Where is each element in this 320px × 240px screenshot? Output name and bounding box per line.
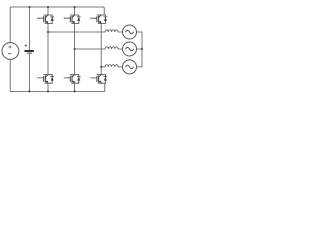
wire: left vertical from DC source to bottom rail [10, 59, 11, 91]
wire: phase C line [101, 66, 105, 68]
node: leg2 top junction [74, 6, 76, 8]
wire: bottom DC rail [11, 83, 105, 91]
capacitor C plates [25, 50, 33, 52]
transistor S2 top leg2 [64, 15, 80, 24]
transistor S6 bottom leg3 [91, 75, 107, 84]
wire: phase B line right [118, 48, 122, 50]
wire: phase A line [48, 31, 105, 33]
ac source ec [123, 60, 137, 74]
dc source V [2, 43, 19, 60]
node: leg1 bottom junction [47, 90, 49, 92]
wire: leg3 mid vertical [100, 24, 102, 75]
ac source eb [123, 42, 137, 56]
node: leg2 bottom junction [74, 90, 76, 92]
node: phase C junction [100, 66, 102, 68]
wire: phase B line [75, 48, 105, 50]
transistor S5 bottom leg2 [64, 75, 80, 84]
wire: leg1 top stub [47, 7, 49, 15]
wire: leg1 bottom stub [47, 83, 49, 91]
wire: ea right lead [137, 31, 143, 33]
wire: left vertical from top rail to DC source [10, 7, 11, 43]
wire: leg1 mid vertical [47, 24, 49, 75]
node: phase B junction [74, 48, 76, 50]
transistor S3 top leg3 [91, 15, 107, 24]
node: leg1 top junction [47, 6, 49, 8]
node: neutral junction [141, 48, 143, 50]
node: phase A junction [47, 31, 49, 33]
wire: eb right lead [137, 48, 143, 50]
wire: ec right lead [137, 66, 143, 68]
transistor S4 bottom leg1 [37, 75, 53, 84]
wire: phase A line right [118, 31, 122, 33]
wire: leg2 bottom stub [74, 83, 76, 91]
capacitor C lead top [29, 7, 31, 50]
inductor La [105, 30, 118, 32]
capacitor C lead bottom [29, 53, 31, 91]
ac source ea [123, 25, 137, 39]
inductor Lc [105, 65, 118, 67]
wire: leg2 top stub [74, 7, 76, 15]
node: cap top junction [28, 6, 30, 8]
transistor S1 top leg1 [37, 15, 53, 24]
node: cap bottom junction [28, 90, 30, 92]
capacitor plus label [25, 45, 27, 47]
wire: leg2 mid vertical [74, 24, 76, 75]
inductor Lb [105, 47, 118, 49]
wire: neutral bus [141, 32, 143, 67]
wire: top DC rail [11, 7, 105, 15]
wire: phase C line right [118, 66, 122, 68]
